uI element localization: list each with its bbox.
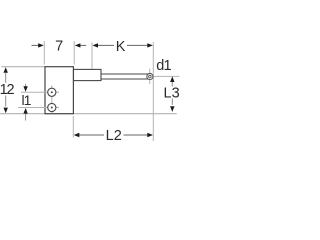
- centerline: ports vertical: [51, 86, 53, 114]
- svg-text:K: K: [116, 39, 126, 55]
- dim line: K right segment: [127, 44, 148, 46]
- dim line: L2 left segment: [79, 134, 104, 136]
- arrow: 12 top (points up): [4, 67, 8, 73]
- centerline: rod axis extended right (ref for L3): [153, 75, 179, 77]
- arrow: L3 top (points up): [170, 76, 174, 82]
- extension line: 7 right (x=74.2): [73, 41, 75, 65]
- dim line: L3 upper shaft: [171, 82, 173, 86]
- svg-text:7: 7: [55, 39, 63, 55]
- svg-text:L2: L2: [106, 128, 122, 144]
- dim line: l1 upper shaft: [25, 84, 27, 87]
- extension line: right common (rod tip, K / L2 / d1): [152, 42, 154, 141]
- extension line: 7 left (x=44.3): [43, 41, 45, 65]
- svg-text:l1: l1: [22, 92, 32, 108]
- arrow: K right (points right): [147, 43, 153, 47]
- dim line: 12 lower shaft: [5, 96, 7, 107]
- extension line: K left at spigot shoulder: [91, 43, 93, 69]
- extension line: body top edge extended left (ref for 12): [2, 66, 46, 68]
- dim line: L3 lower shaft: [171, 98, 173, 104]
- upper port circle: [48, 88, 56, 96]
- lower port center dot: [51, 107, 53, 109]
- arrow: l1 top (points down): [23, 86, 27, 92]
- rod top line: [101, 73, 148, 75]
- dim line: K left segment: [98, 44, 115, 46]
- svg-text:L3: L3: [164, 86, 180, 102]
- dim line: L2 right segment: [124, 134, 149, 136]
- arrow: 7 right (points left): [75, 43, 81, 47]
- arrow: 7 left (points right): [38, 43, 44, 47]
- body rectangle: [45, 67, 73, 114]
- spigot rectangle: [74, 69, 102, 80]
- centerline: upper port horizontal: [21, 91, 59, 93]
- svg-text:12: 12: [0, 82, 14, 98]
- dim line: 7 left tail: [32, 44, 40, 46]
- arrow: L2 left (points left): [74, 133, 80, 137]
- upper port center dot: [51, 91, 53, 93]
- arrow: K left (points left): [92, 43, 98, 47]
- extension line: body bottom edge extended full width (ref for 12 and L3): [0, 113, 177, 115]
- arrow: L2 right (points right): [147, 133, 153, 137]
- extension line: body right edge extended down (ref for L2): [72, 116, 74, 138]
- arrow: 12 bottom (points down): [4, 108, 8, 114]
- svg-text:d1: d1: [156, 58, 171, 74]
- centerline: rod tip vertical: [149, 69, 151, 84]
- rod tip cap circle: [147, 73, 153, 79]
- centerline: lower port horizontal: [18, 107, 59, 109]
- arrow: L3 bottom (points down): [170, 106, 174, 112]
- rod bottom line: [101, 78, 148, 80]
- lower port circle: [48, 103, 56, 111]
- dim line: 12 upper shaft: [5, 73, 7, 83]
- dim line: 7 right tail: [80, 44, 86, 46]
- arrow: l1 bottom (points up): [23, 108, 27, 114]
- dim line: l1 lower shaft: [25, 113, 27, 120]
- rod tip inner circle d1: [149, 75, 152, 78]
